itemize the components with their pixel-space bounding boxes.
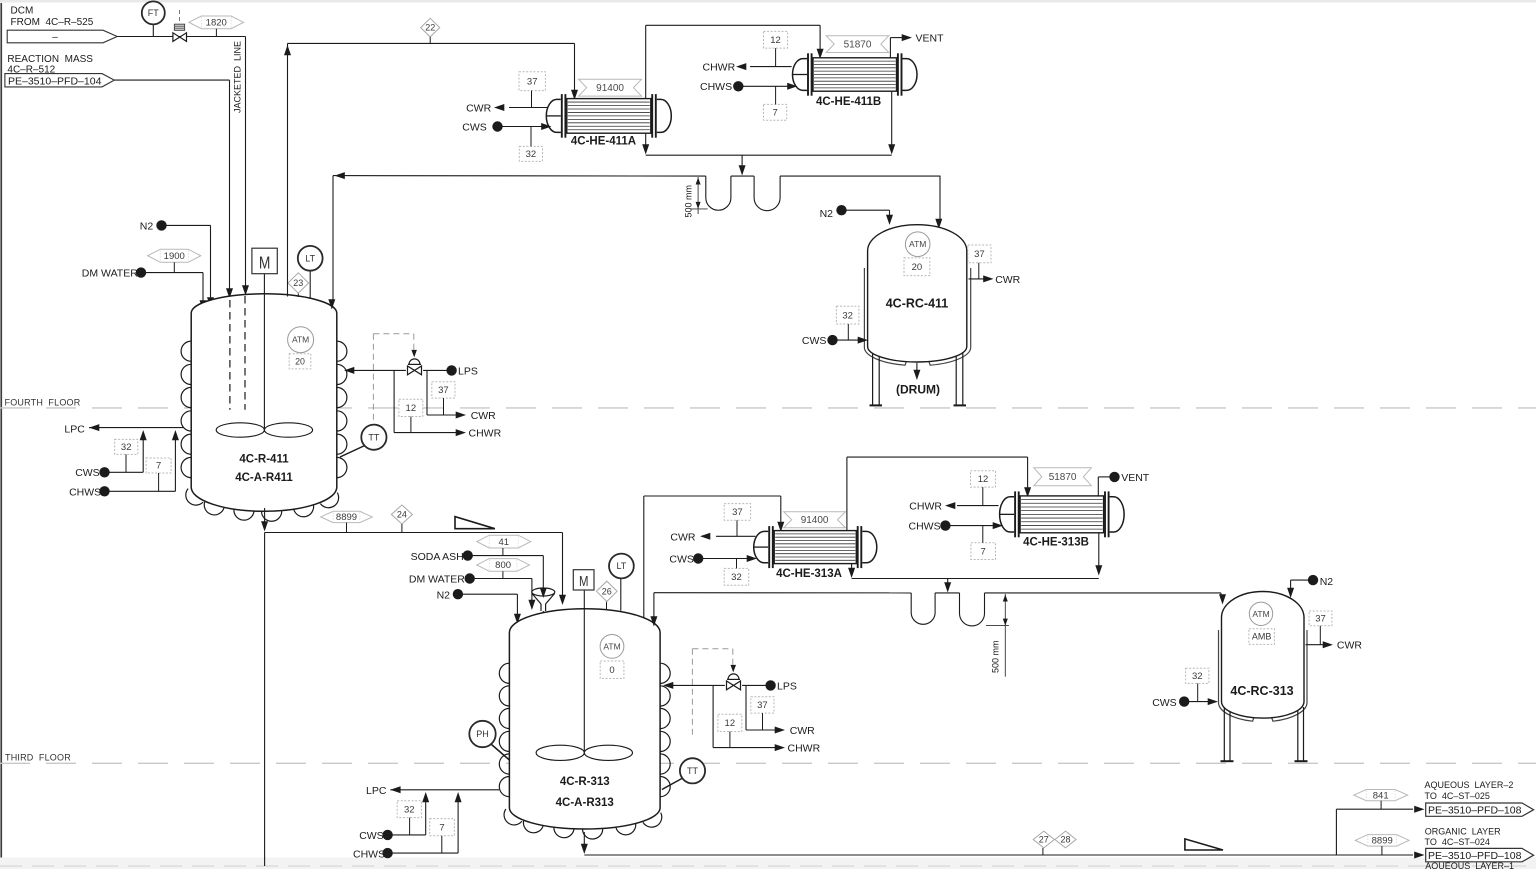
vessel 4C-RC-313 legs	[1223, 707, 1225, 761]
motor M of 4C-R-411	[252, 248, 277, 274]
tag 1820	[189, 16, 244, 29]
tag box 37 LPS R-411	[432, 382, 455, 398]
tag 8899 organic	[1355, 835, 1409, 847]
svg-text:CWS: CWS	[1152, 697, 1177, 709]
svg-text:7: 7	[439, 822, 444, 833]
svg-text:CWS: CWS	[669, 553, 694, 565]
svg-text:LPS: LPS	[777, 681, 797, 693]
CHWR outlet LPS R-313	[713, 747, 777, 749]
CWR outlet R-411	[427, 414, 458, 416]
flag PE-3510-PFD-108 aqueous-2	[1426, 803, 1534, 816]
pipe riser to aqueous layer-2	[1335, 809, 1337, 855]
svg-text:N2: N2	[820, 208, 834, 220]
svg-text:51870: 51870	[1049, 472, 1077, 483]
dimension 500 mm top	[697, 177, 699, 214]
tag diamond 27	[1033, 831, 1054, 848]
svg-text:CHWR: CHWR	[909, 501, 942, 513]
CWR outlet of HE-411A	[509, 107, 548, 109]
svg-text:CHWS: CHWS	[353, 848, 385, 860]
svg-text:THIRD FLOOR: THIRD FLOOR	[5, 753, 71, 763]
svg-text:N2: N2	[1320, 576, 1334, 588]
dashed signal box R-411 LPS	[372, 334, 374, 420]
tag box 32 of HE-313A	[724, 568, 749, 585]
heat exchanger 4C-HE-313A	[754, 531, 768, 562]
svg-text:4C-HE-313B: 4C-HE-313B	[1023, 536, 1089, 548]
vessel 4C-R-313 limpet coil bottom	[504, 809, 522, 825]
tag box 37 of HE-411A	[519, 72, 545, 91]
tag ribbon 91400 of HE-411A	[579, 79, 642, 96]
instrument PH of 4C-R-313	[492, 745, 510, 761]
svg-text:4C-R-313: 4C-R-313	[560, 776, 610, 788]
tag box 0 of 4C-R-313	[600, 661, 624, 679]
motor M of 4C-R-313	[573, 570, 594, 590]
svg-text:TO 4C–ST–024: TO 4C–ST–024	[1425, 837, 1490, 847]
tag box 7 of HE-411B	[764, 104, 787, 120]
VENT of HE-313B	[1097, 477, 1099, 496]
pipe condensate from HE-313A	[851, 564, 853, 572]
vessel 4C-R-313 limpet coil right	[660, 663, 670, 683]
svg-text:REACTION MASS: REACTION MASS	[7, 54, 93, 65]
svg-text:37: 37	[974, 249, 985, 260]
dashed signal box R-313 LPS	[691, 649, 693, 735]
vessel 4C-RC-313 jacket	[1218, 630, 1254, 721]
control valve on DCM line	[179, 10, 181, 24]
LPC outlet of 4C-R-313	[390, 786, 400, 793]
tag box 12 of HE-411B	[764, 31, 788, 48]
svg-text:37: 37	[1315, 614, 1326, 625]
svg-text:(DRUM): (DRUM)	[896, 383, 940, 397]
tag 800	[477, 559, 530, 572]
svg-text:32: 32	[842, 310, 853, 321]
svg-text:CWR: CWR	[790, 725, 815, 737]
pipe bottom outlet 4C-R-313	[583, 832, 585, 848]
svg-text:27: 27	[1039, 835, 1049, 845]
svg-text:CWR: CWR	[466, 102, 491, 114]
svg-text:91400: 91400	[596, 83, 624, 94]
vessel 4C-RC-313 shell	[1222, 592, 1305, 719]
LPS supply R-411	[446, 365, 456, 375]
sheet left border bar	[0, 3, 2, 866]
instrument TT of 4C-R-411	[340, 446, 365, 458]
tag box 7 of HE-313B	[971, 543, 996, 560]
svg-text:ATM: ATM	[292, 335, 309, 345]
svg-text:CWS: CWS	[359, 830, 384, 842]
svg-text:ORGANIC LAYER: ORGANIC LAYER	[1425, 826, 1501, 836]
svg-text:FROM 4C–R–525: FROM 4C–R–525	[11, 17, 94, 28]
svg-text:0: 0	[609, 665, 614, 676]
svg-text:ATM: ATM	[909, 239, 926, 249]
svg-text:41: 41	[498, 537, 509, 548]
drop to CWR R-313	[745, 685, 747, 730]
svg-text:PE–3510–PFD–108: PE–3510–PFD–108	[1428, 804, 1522, 816]
tag box 37 of 4C-RC-411	[968, 245, 991, 263]
vessel 4C-R-411 limpet coil right	[337, 341, 347, 361]
fourth floor line	[0, 407, 1536, 409]
svg-text:JACKETED LINE: JACKETED LINE	[233, 41, 243, 113]
drop to CHWR R-411	[393, 370, 395, 432]
CHWR outlet R-411	[394, 432, 458, 434]
vessel 4C-R-313 limpet coil left	[499, 663, 509, 683]
instrument ATM of 4C-RC-411	[905, 232, 930, 257]
slope symbol transfer line	[455, 517, 495, 529]
LPS control valve R-313	[727, 681, 741, 690]
vessel 4C-RC-411 legs	[872, 352, 874, 405]
tag box 32 jacket R-411	[115, 439, 138, 454]
LPC outlet of 4C-R-411	[89, 424, 99, 431]
svg-text:4C-HE-411B: 4C-HE-411B	[816, 96, 881, 108]
flag PE-3510-PFD-104	[5, 74, 114, 87]
svg-text:AQUEOUS LAYER–2: AQUEOUS LAYER–2	[1425, 780, 1514, 790]
svg-text:800: 800	[495, 560, 511, 571]
pipe condensate header bottom section	[852, 578, 1099, 580]
svg-text:4C-RC-313: 4C-RC-313	[1230, 684, 1293, 698]
sheet top border	[0, 0, 1536, 3]
bottom shaded band	[0, 858, 1536, 869]
svg-text:CHWR: CHWR	[703, 62, 736, 74]
vessel 4C-R-411 limpet coil left	[181, 341, 191, 361]
CWR outlet of 4C-RC-411	[969, 278, 987, 280]
svg-text:–: –	[52, 32, 58, 43]
instrument LT of 4C-R-411	[309, 271, 311, 299]
pipe drop to loop seal bottom	[947, 579, 949, 587]
svg-text:FOURTH FLOOR: FOURTH FLOOR	[5, 397, 81, 407]
svg-text:DM WATER: DM WATER	[409, 574, 465, 586]
svg-text:CHWR: CHWR	[788, 743, 821, 755]
drop to CHWR R-313	[712, 685, 714, 747]
pipe condensate from HE-411A	[645, 133, 647, 147]
pipe vapor riser from 4C-R-411	[287, 43, 289, 296]
svg-text:DM WATER: DM WATER	[82, 268, 138, 280]
pipe LPS into 4C-R-411	[352, 369, 406, 371]
svg-text:CWR: CWR	[471, 410, 496, 422]
tag box 37 LPS R-313	[751, 697, 774, 713]
tag 841	[1354, 790, 1408, 801]
svg-text:32: 32	[121, 442, 132, 453]
svg-text:LT: LT	[616, 561, 626, 571]
svg-text:37: 37	[527, 76, 538, 87]
tag box 32 of 4C-RC-313	[1186, 668, 1209, 683]
svg-text:23: 23	[293, 278, 303, 288]
svg-text:37: 37	[438, 385, 449, 396]
svg-text:LPC: LPC	[366, 785, 387, 797]
vessel 4C-RC-411 shell	[868, 225, 967, 362]
svg-text:VENT: VENT	[1121, 472, 1150, 484]
svg-text:M: M	[259, 253, 271, 273]
pipe return into 4C-R-411	[332, 176, 334, 303]
svg-text:28: 28	[1060, 835, 1070, 845]
svg-text:PH: PH	[476, 729, 489, 739]
svg-text:12: 12	[770, 35, 781, 46]
tag diamond 23	[297, 291, 299, 297]
pipe transfer header to 4C-R-313	[265, 532, 563, 534]
tag diamond 22	[421, 18, 440, 37]
tag box AMB of 4C-RC-313	[1249, 629, 1275, 645]
CWR outlet LPS R-313	[746, 729, 777, 731]
svg-text:7: 7	[156, 461, 161, 472]
svg-text:TO 4C–ST–025: TO 4C–ST–025	[1425, 791, 1490, 801]
svg-text:SODA ASH: SODA ASH	[411, 551, 464, 563]
instrument FT	[152, 24, 154, 36]
heat exchanger 4C-HE-313B	[1000, 497, 1015, 532]
svg-text:841: 841	[1373, 790, 1389, 801]
funnel on 4C-R-313	[532, 588, 555, 596]
heat exchanger 4C-HE-411A	[546, 99, 560, 132]
tag ribbon 51870 of HE-411B	[826, 36, 889, 53]
pipe into 4C-RC-411	[939, 175, 941, 177]
pipe into 4C-R-313 top	[562, 533, 564, 599]
svg-text:CHWS: CHWS	[69, 487, 101, 499]
svg-text:37: 37	[732, 507, 743, 518]
agitator 4C-A-R411	[263, 274, 265, 430]
svg-text:4C-RC-411: 4C-RC-411	[886, 297, 949, 311]
svg-text:32: 32	[1192, 671, 1203, 682]
tag box 12 LPS R-313	[718, 714, 742, 731]
CHWR outlet of HE-313B	[957, 505, 999, 507]
svg-text:CHWS: CHWS	[700, 81, 732, 93]
svg-text:4C-HE-411A: 4C-HE-411A	[571, 135, 636, 147]
pipe vapor HE-411A to HE-411B	[645, 25, 647, 98]
svg-text:4C-HE-313A: 4C-HE-313A	[776, 568, 842, 580]
vessel 4C-R-411 shell	[191, 294, 337, 511]
svg-text:CWS: CWS	[462, 122, 487, 134]
tag box 20 of 4C-R-411	[289, 354, 311, 369]
tag box 7 jacket R-313	[430, 819, 455, 836]
pipe bottom outlet 4C-R-411	[264, 508, 266, 526]
tag box 32 of HE-411A	[519, 146, 542, 161]
CWR outlet of HE-313A	[716, 535, 756, 537]
pipe loop seal line bottom	[654, 592, 911, 594]
tag box 7 jacket R-411	[146, 458, 171, 473]
instrument ATM of 4C-RC-313	[1249, 602, 1272, 625]
instrument ATM of 4C-R-313	[600, 635, 624, 659]
svg-text:CWR: CWR	[1337, 640, 1362, 652]
drop to CWR R-411	[426, 370, 428, 415]
svg-text:1900: 1900	[164, 251, 185, 262]
svg-text:FT: FT	[148, 8, 159, 18]
jacket riser CWS R-411	[142, 435, 144, 472]
svg-text:M: M	[579, 574, 589, 590]
tag ribbon 51870 of HE-313B	[1034, 468, 1092, 486]
tag 41	[477, 535, 531, 548]
tag box 12 LPS R-411	[399, 399, 423, 416]
svg-text:12: 12	[978, 474, 989, 485]
tag 8899 transfer	[321, 511, 373, 522]
pipe LPS into 4C-R-313	[671, 684, 725, 686]
tag diamond 26	[606, 602, 608, 610]
svg-text:12: 12	[725, 718, 736, 729]
svg-text:500 mm: 500 mm	[684, 185, 694, 218]
pipe organic layer header	[584, 854, 1413, 856]
pipe condensate header top section	[646, 154, 892, 156]
instrument LT of 4C-R-313	[620, 578, 622, 610]
svg-text:CWS: CWS	[75, 467, 100, 479]
svg-text:AQUEOUS LAYER–1: AQUEOUS LAYER–1	[1425, 861, 1514, 869]
svg-text:20: 20	[295, 356, 305, 366]
tag box 12 of HE-313B	[971, 471, 996, 487]
instrument TT of 4C-R-313	[662, 778, 683, 790]
svg-text:500 mm: 500 mm	[991, 640, 1001, 673]
svg-text:CHWR: CHWR	[469, 428, 502, 440]
svg-text:24: 24	[397, 510, 407, 520]
dip tube dashed 2	[244, 296, 246, 410]
jacket riser CWS R-313	[425, 797, 427, 835]
svg-text:8899: 8899	[1372, 836, 1393, 847]
svg-text:32: 32	[404, 804, 415, 815]
svg-text:LPS: LPS	[458, 366, 478, 378]
svg-text:N2: N2	[140, 220, 154, 232]
svg-text:VENT: VENT	[916, 33, 945, 45]
svg-text:4C-A-R411: 4C-A-R411	[235, 472, 293, 484]
tag box 37 of HE-313A	[724, 504, 750, 521]
svg-text:CWR: CWR	[995, 274, 1020, 286]
pipe vapor HE-313A to HE-313B	[846, 457, 848, 530]
dip tube dashed 1	[229, 300, 231, 410]
instrument ATM of 4C-R-411	[288, 327, 314, 353]
CWR outlet of 4C-RC-313	[1306, 644, 1326, 646]
pipe loop seal line top with return arrow	[335, 172, 345, 179]
svg-text:26: 26	[602, 586, 612, 596]
pipe down to lower level	[264, 533, 266, 867]
svg-text:7: 7	[981, 546, 986, 557]
LPS supply R-313	[765, 680, 775, 690]
svg-text:7: 7	[772, 108, 777, 119]
jacket riser CHWS R-313	[457, 797, 459, 853]
svg-text:32: 32	[731, 572, 742, 583]
pipe into 4C-RC-313	[1220, 593, 1222, 599]
svg-text:PE–3510–PFD–104: PE–3510–PFD–104	[8, 75, 102, 87]
tag box 32 of 4C-RC-411	[836, 306, 859, 324]
svg-text:12: 12	[406, 403, 417, 414]
svg-text:LT: LT	[305, 253, 315, 263]
pipe drop to loop seal top	[741, 155, 743, 169]
svg-text:DCM: DCM	[11, 6, 34, 17]
heat exchanger 4C-HE-411B	[793, 59, 807, 91]
svg-text:AMB: AMB	[1252, 632, 1272, 642]
tag box 37 of 4C-RC-313	[1309, 611, 1332, 626]
svg-text:LPC: LPC	[64, 424, 85, 436]
tag ribbon 91400 of HE-313A	[784, 512, 846, 528]
slope symbol organic line	[1185, 839, 1223, 850]
tag diamond 24	[391, 505, 412, 524]
svg-text:22: 22	[425, 23, 435, 33]
svg-text:4C-A-R313: 4C-A-R313	[556, 797, 614, 809]
VENT line of HE-411B	[889, 38, 891, 58]
pipe condensate from HE-411B	[891, 91, 893, 147]
pipe vapor riser from 4C-R-313	[643, 496, 645, 618]
dimension 500 mm bottom	[1004, 594, 1006, 677]
tag box 32 jacket R-313	[397, 801, 421, 818]
svg-text:TT: TT	[687, 766, 698, 776]
svg-text:8899: 8899	[336, 512, 357, 523]
svg-text:51870: 51870	[844, 40, 872, 51]
flag PE-3510-PFD-108 organic	[1414, 852, 1424, 859]
pipe into HE-411A inlet	[574, 43, 576, 91]
pipe DCM feed line	[117, 36, 245, 38]
CHWR outlet of HE-411B	[750, 66, 792, 68]
pipe reaction mass line	[114, 79, 229, 81]
tag box 20 of 4C-RC-411	[904, 258, 930, 276]
pipe return into 4C-R-313	[653, 593, 655, 620]
tag diamond 28	[1055, 831, 1076, 848]
jacket riser CHWS R-411	[174, 435, 176, 491]
svg-text:20: 20	[912, 262, 923, 273]
vessel 4C-R-313 shell	[509, 609, 660, 829]
third floor line	[0, 762, 1536, 764]
svg-text:37: 37	[757, 700, 768, 711]
svg-text:4C-R-411: 4C-R-411	[239, 454, 289, 466]
svg-text:91400: 91400	[801, 515, 829, 526]
svg-text:1820: 1820	[206, 18, 227, 29]
agitator 4C-A-R313	[583, 590, 585, 753]
vessel 4C-R-411 limpet coil bottom	[186, 489, 203, 506]
svg-text:CWR: CWR	[670, 531, 695, 543]
vessel 4C-RC-411 jacket	[864, 268, 906, 365]
bottom outlet of 4C-RC-411 to drum	[916, 363, 918, 372]
svg-text:ATM: ATM	[1252, 609, 1269, 619]
flag DCM source	[7, 30, 117, 43]
svg-text:32: 32	[526, 149, 537, 160]
svg-text:N2: N2	[437, 589, 451, 601]
svg-text:CHWS: CHWS	[909, 521, 941, 533]
svg-text:TT: TT	[368, 432, 379, 442]
LPS control valve R-411	[408, 366, 422, 375]
tag 1900	[148, 249, 201, 262]
svg-text:CWS: CWS	[802, 335, 827, 347]
pipe condensate from HE-313B	[1098, 533, 1100, 569]
svg-text:ATM: ATM	[603, 641, 620, 651]
svg-text:PE–3510–PFD–108: PE–3510–PFD–108	[1428, 850, 1522, 862]
